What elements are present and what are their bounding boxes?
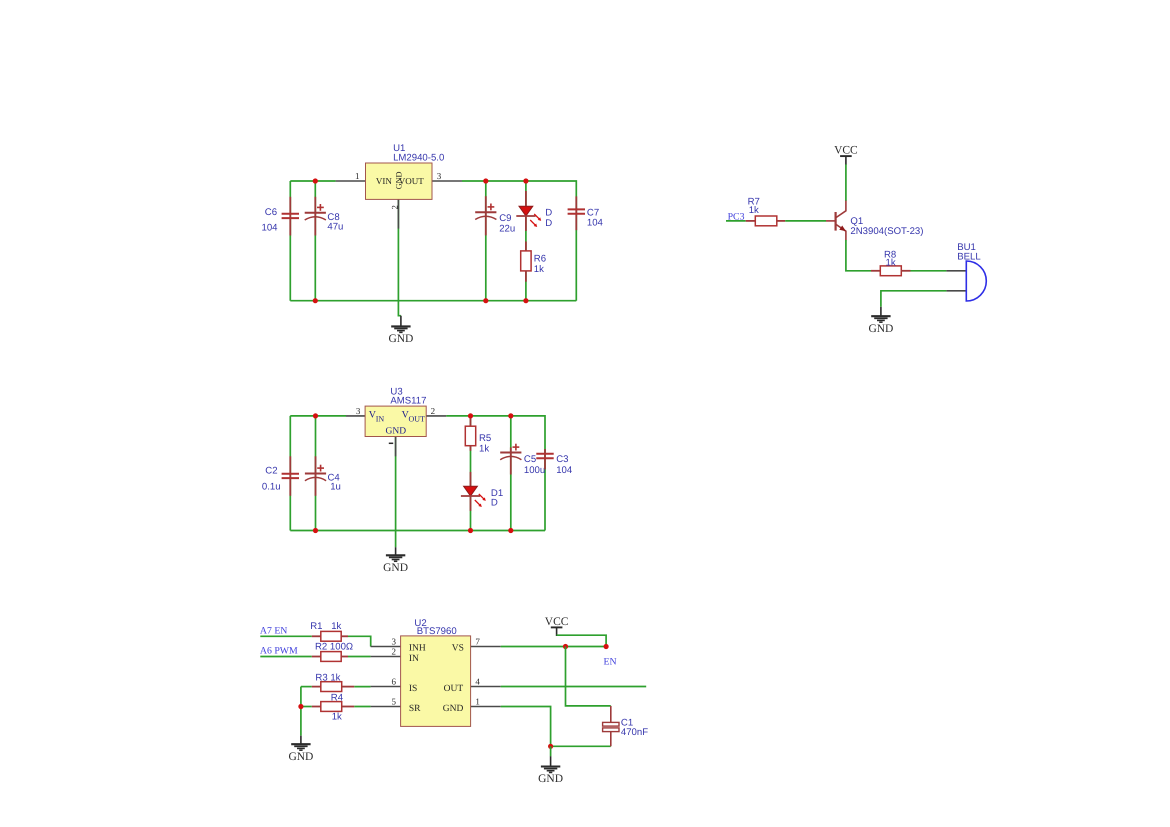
wire left rail bbox=[289, 181, 291, 301]
regulator U3 body bbox=[365, 406, 426, 436]
U2 pin numbers bbox=[392, 637, 481, 707]
svg-text:GND: GND bbox=[395, 171, 404, 189]
svg-text:C3: C3 bbox=[556, 454, 568, 465]
svg-text:VS: VS bbox=[452, 643, 464, 653]
svg-text:A6 PWM: A6 PWM bbox=[260, 646, 298, 657]
svg-text:1u: 1u bbox=[330, 482, 341, 493]
U2 pin names bbox=[409, 643, 464, 714]
wire R2 to pin2 bbox=[348, 656, 371, 658]
wire A6PWM to R2 bbox=[260, 656, 312, 658]
U3 pin numbers bbox=[356, 406, 435, 443]
U1 value bbox=[393, 153, 444, 164]
wire R3 to pin6 bbox=[354, 686, 370, 688]
svg-text:VCC: VCC bbox=[834, 145, 858, 157]
resistor R2 bbox=[312, 652, 348, 662]
svg-text:47u: 47u bbox=[327, 222, 343, 233]
wire R3 left bbox=[301, 686, 312, 688]
C3 value bbox=[556, 465, 573, 476]
junction d4 bbox=[313, 298, 318, 303]
Q1 value bbox=[850, 226, 923, 237]
C6 value bbox=[262, 222, 279, 233]
pin 3 U3 bbox=[346, 415, 365, 417]
wire C8 branch bbox=[314, 181, 316, 301]
wire VCC2 to VS bbox=[557, 635, 607, 646]
junction d1 bbox=[313, 178, 318, 183]
D1 value bbox=[491, 498, 498, 509]
svg-text:GND: GND bbox=[386, 427, 407, 437]
ground GND2 bbox=[868, 307, 893, 335]
svg-text:C6: C6 bbox=[265, 207, 277, 218]
pin 2 U1 bbox=[397, 199, 399, 228]
svg-text:3: 3 bbox=[437, 171, 442, 181]
pin 5 U2 bbox=[371, 706, 401, 708]
U1 pin names bbox=[376, 171, 424, 189]
capacitor C4 bbox=[305, 456, 326, 496]
C5 refdes bbox=[524, 454, 536, 465]
svg-text:OUT: OUT bbox=[409, 414, 426, 423]
C2 value bbox=[262, 481, 281, 492]
capacitor C5 bbox=[500, 444, 521, 475]
svg-text:470nF: 470nF bbox=[621, 727, 648, 738]
C4 refdes bbox=[328, 473, 341, 484]
wire R4 to pin5 bbox=[354, 706, 370, 708]
junction d12 bbox=[508, 528, 513, 533]
wire VIN top rail bbox=[290, 180, 335, 182]
wire C9 branch bbox=[485, 181, 487, 301]
net PC3 bbox=[728, 211, 745, 222]
pin 1 U2 bbox=[471, 706, 501, 708]
U1 refdes bbox=[393, 143, 405, 154]
resistor R3 bbox=[312, 682, 355, 692]
svg-text:R3 1k: R3 1k bbox=[315, 672, 340, 683]
wire GND pin wire bbox=[501, 707, 551, 747]
op-amp U1 body bbox=[366, 163, 433, 199]
R1 value bbox=[331, 621, 341, 632]
pin 6 U2 bbox=[371, 686, 401, 688]
pin 1 U3 bbox=[395, 437, 397, 457]
bell pin 2 bbox=[946, 290, 966, 292]
C1 refdes bbox=[621, 718, 633, 729]
svg-text:100u: 100u bbox=[524, 465, 545, 476]
net EN bbox=[604, 656, 617, 667]
svg-text:2N3904(SOT-23): 2N3904(SOT-23) bbox=[850, 226, 923, 237]
wire C4 branch bbox=[315, 416, 317, 531]
capacitor C9 bbox=[475, 196, 496, 235]
buzzer BU1 bbox=[966, 261, 986, 301]
transistor Q1 bbox=[826, 201, 846, 241]
svg-text:VIN: VIN bbox=[376, 176, 392, 186]
wire left rail blk2 bbox=[289, 416, 291, 531]
pin 7 U2 bbox=[471, 646, 501, 648]
svg-text:1: 1 bbox=[475, 697, 480, 707]
svg-text:SR: SR bbox=[409, 704, 421, 714]
junction d7 bbox=[313, 413, 318, 418]
svg-text:D: D bbox=[491, 498, 498, 509]
wire VS drop bbox=[566, 647, 611, 706]
svg-text:1k: 1k bbox=[749, 205, 759, 216]
pin 3 U1 bbox=[432, 180, 462, 182]
junction d9 bbox=[508, 413, 513, 418]
LED D1 bbox=[461, 472, 486, 511]
junction d8 bbox=[468, 413, 473, 418]
C8 refdes bbox=[327, 212, 339, 223]
svg-text:2: 2 bbox=[389, 205, 399, 209]
svg-text:IN: IN bbox=[376, 414, 385, 423]
capacitor C6 bbox=[282, 197, 299, 236]
wire VS rail bbox=[501, 646, 606, 648]
resistor R8 bbox=[871, 266, 911, 276]
svg-text:3: 3 bbox=[356, 406, 361, 416]
wire U1 gnd stem bbox=[398, 199, 401, 315]
svg-text:R1: R1 bbox=[310, 621, 322, 632]
pin 1 U1 bbox=[336, 180, 366, 182]
svg-text:2: 2 bbox=[392, 647, 397, 657]
junction d14 bbox=[563, 644, 568, 649]
svg-text:22u: 22u bbox=[499, 224, 515, 235]
svg-text:VCC: VCC bbox=[545, 616, 569, 628]
net A6 PWM bbox=[260, 646, 298, 657]
R3 label bbox=[315, 672, 340, 683]
BU1 refdes bbox=[957, 242, 976, 253]
svg-text:C2: C2 bbox=[265, 465, 277, 476]
capacitor C8 bbox=[305, 197, 326, 236]
wire R7 to Q1 base bbox=[785, 220, 826, 222]
C7 refdes bbox=[587, 208, 599, 219]
U3 refdes bbox=[390, 387, 402, 398]
ground GND4 bbox=[538, 756, 563, 785]
junction d6 bbox=[523, 298, 528, 303]
svg-text:4: 4 bbox=[475, 677, 480, 687]
ground GND3 bbox=[288, 736, 313, 763]
wire gnd4 stem bbox=[550, 746, 552, 756]
svg-text:6: 6 bbox=[392, 677, 397, 687]
junction d10 bbox=[313, 528, 318, 533]
LED D refdes bbox=[545, 208, 552, 219]
capacitor C3 bbox=[536, 449, 553, 469]
junction d11 bbox=[468, 528, 473, 533]
svg-text:104: 104 bbox=[262, 222, 279, 233]
R4 refdes bbox=[331, 693, 344, 704]
svg-text:C5: C5 bbox=[524, 454, 536, 465]
R8 refdes bbox=[884, 250, 896, 261]
svg-text:5: 5 bbox=[392, 697, 397, 707]
junction d3 bbox=[523, 178, 528, 183]
svg-text:7: 7 bbox=[475, 637, 480, 647]
wire gnd drop left bbox=[300, 687, 302, 736]
resistor R6 bbox=[521, 242, 531, 282]
svg-text:1k: 1k bbox=[332, 712, 342, 723]
svg-text:GND: GND bbox=[868, 323, 893, 335]
svg-text:R6: R6 bbox=[534, 254, 546, 265]
wire R5-D1 branch bbox=[470, 416, 472, 531]
svg-text:D: D bbox=[545, 218, 552, 229]
wire emitter to R8 bbox=[846, 240, 871, 271]
D1 refdes bbox=[491, 488, 503, 499]
svg-text:C9: C9 bbox=[499, 213, 511, 224]
svg-text:R2 100Ω: R2 100Ω bbox=[315, 641, 353, 652]
R2 label bbox=[315, 641, 353, 652]
svg-text:IS: IS bbox=[409, 684, 417, 694]
C1 value bbox=[621, 727, 648, 738]
U1 pin numbers bbox=[355, 171, 442, 209]
Q1 refdes bbox=[850, 216, 863, 227]
svg-text:A7 EN: A7 EN bbox=[260, 625, 287, 636]
junction d13 bbox=[298, 704, 303, 709]
R5 value bbox=[479, 444, 489, 455]
wire U3 gnd stem bbox=[395, 437, 397, 548]
junction d16 bbox=[548, 744, 553, 749]
svg-text:1k: 1k bbox=[886, 257, 896, 268]
U2 value bbox=[417, 626, 457, 637]
C2 refdes bbox=[265, 465, 277, 476]
wire U3 vin rail bbox=[290, 415, 346, 417]
R7 refdes bbox=[748, 196, 760, 207]
junction d15 bbox=[604, 644, 609, 649]
wire PC3 to R7 bbox=[726, 220, 746, 222]
driver U2 body bbox=[401, 636, 471, 727]
svg-text:BELL: BELL bbox=[957, 252, 981, 263]
wire OUT wire bbox=[501, 686, 647, 688]
LED D bbox=[516, 191, 541, 231]
svg-text:OUT: OUT bbox=[444, 684, 464, 694]
svg-text:GND: GND bbox=[443, 704, 464, 714]
svg-text:EN: EN bbox=[604, 656, 617, 667]
C3 refdes bbox=[556, 454, 568, 465]
resistor R4 bbox=[312, 702, 355, 712]
U3 value bbox=[390, 395, 426, 406]
ground GND5 bbox=[383, 547, 408, 574]
C5 value bbox=[524, 465, 545, 476]
bell pin 1 bbox=[946, 270, 966, 272]
svg-text:GND: GND bbox=[288, 751, 313, 763]
wire bottom rail blk2 bbox=[290, 530, 545, 532]
svg-text:2: 2 bbox=[431, 406, 436, 416]
svg-text:104: 104 bbox=[587, 218, 604, 229]
svg-text:0.1u: 0.1u bbox=[262, 481, 281, 492]
svg-text:3: 3 bbox=[392, 637, 397, 647]
svg-text:LM2940-5.0: LM2940-5.0 bbox=[393, 153, 444, 164]
wire VCC to collector bbox=[845, 164, 847, 201]
C7 value bbox=[587, 218, 604, 229]
svg-text:GND: GND bbox=[538, 773, 563, 785]
svg-text:R4: R4 bbox=[331, 693, 344, 704]
R4 value bbox=[332, 712, 342, 723]
ground GND1 bbox=[388, 316, 413, 345]
BU1 value bbox=[957, 252, 981, 263]
wire C1 bottom wire bbox=[551, 745, 611, 747]
power VCC2 bbox=[545, 616, 569, 636]
wire R4 left bbox=[301, 706, 312, 708]
wire R1 to pin3 bbox=[348, 636, 371, 646]
pin 4 U2 bbox=[471, 686, 501, 688]
svg-text:1k: 1k bbox=[534, 264, 544, 275]
svg-text:1: 1 bbox=[355, 171, 360, 181]
svg-text:GND: GND bbox=[383, 562, 408, 574]
resistor R7 bbox=[746, 216, 786, 226]
svg-text:GND: GND bbox=[388, 333, 413, 345]
C8 value bbox=[327, 222, 343, 233]
wire U3 vout rail bbox=[446, 416, 545, 531]
capacitor C7 bbox=[568, 196, 585, 230]
wire LED-R6 branch bbox=[525, 181, 527, 301]
power VCC1 bbox=[834, 145, 858, 165]
resistor R1 bbox=[312, 631, 348, 641]
U3 pin names bbox=[369, 410, 425, 437]
junction d5 bbox=[483, 298, 488, 303]
svg-text:R5: R5 bbox=[479, 433, 491, 444]
C4 value bbox=[330, 482, 341, 493]
wire VOUT top rail bbox=[462, 181, 576, 301]
R8 value bbox=[886, 257, 896, 268]
resistor R5 bbox=[465, 418, 475, 451]
C6 refdes bbox=[265, 207, 277, 218]
R6 refdes bbox=[534, 254, 546, 265]
svg-text:104: 104 bbox=[556, 465, 573, 476]
pin 2 U3 bbox=[426, 415, 446, 417]
pin 2 U2 bbox=[371, 656, 401, 658]
svg-text:INH: INH bbox=[409, 643, 426, 653]
wire A7EN to R1 bbox=[260, 635, 312, 637]
R7 value bbox=[749, 205, 759, 216]
R1 refdes bbox=[310, 621, 322, 632]
svg-text:AMS117: AMS117 bbox=[390, 395, 426, 406]
wire R8 to bell bbox=[911, 270, 947, 272]
wire bell pin2 to gnd bbox=[881, 291, 947, 307]
svg-text:1k: 1k bbox=[331, 621, 341, 632]
U2 refdes bbox=[414, 618, 426, 629]
capacitor C1 bbox=[603, 706, 619, 746]
wire C5 branch bbox=[510, 416, 512, 531]
pin 3 U2 bbox=[371, 646, 401, 648]
svg-text:1k: 1k bbox=[479, 444, 489, 455]
net A7 EN bbox=[260, 625, 287, 636]
C9 refdes bbox=[499, 213, 511, 224]
svg-text:IN: IN bbox=[409, 654, 419, 664]
R6 value bbox=[534, 264, 544, 275]
junction d2 bbox=[483, 178, 488, 183]
wire bottom rail blk1 bbox=[290, 300, 576, 302]
svg-text:BTS7960: BTS7960 bbox=[417, 626, 457, 637]
capacitor C2 bbox=[282, 456, 299, 496]
LED D value bbox=[545, 218, 552, 229]
C9 value bbox=[499, 224, 515, 235]
R5 refdes bbox=[479, 433, 491, 444]
